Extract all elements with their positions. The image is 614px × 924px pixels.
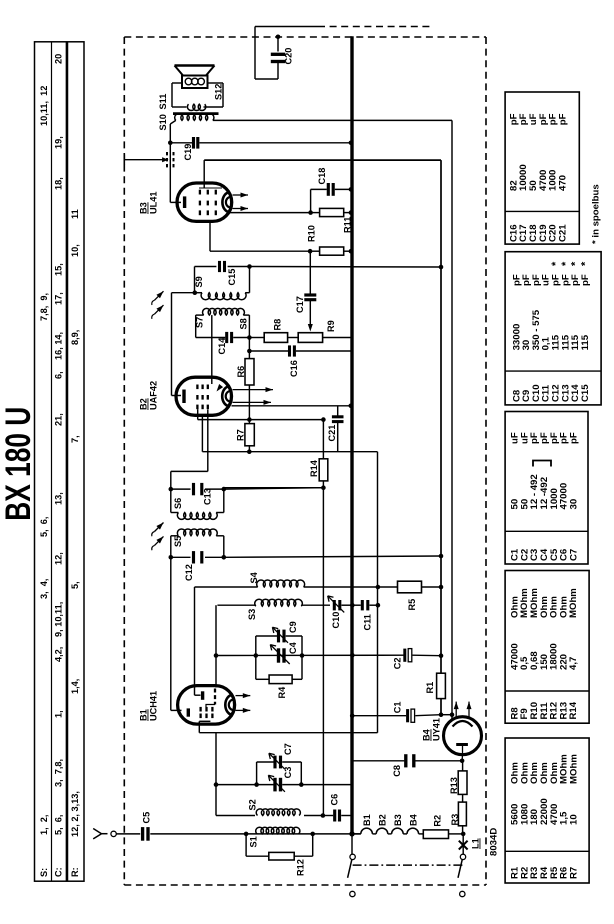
speaker	[175, 66, 215, 89]
svg-text:S2: S2	[248, 799, 258, 810]
svg-text:R13: R13	[449, 777, 459, 794]
wire C13 right to AVC	[224, 488, 324, 489]
svg-text:C3: C3	[283, 767, 293, 779]
node x452 y715	[450, 712, 455, 717]
svg-text:C8: C8	[392, 765, 402, 777]
capacitor C21	[327, 406, 344, 452]
B2 grid wire with arrow	[212, 315, 223, 391]
svg-text:S9: S9	[194, 276, 204, 287]
svg-text:S4: S4	[249, 571, 259, 583]
svg-text:* in spoelbus: * in spoelbus	[591, 184, 602, 244]
wire B2 to bus	[232, 404, 354, 409]
capacitor C5	[142, 812, 152, 841]
parts index table S C rows	[35, 42, 67, 881]
capacitor C10 trimmer	[328, 596, 352, 629]
svg-text:R7: R7	[236, 429, 246, 441]
antenna	[93, 829, 107, 839]
svg-text:B2: B2	[378, 814, 388, 826]
svg-text:C19: C19	[183, 144, 193, 161]
node box right	[300, 653, 305, 658]
wire B1 cathode	[199, 721, 255, 815]
svg-text:pF: pF	[569, 432, 580, 444]
tube B3 UL41	[177, 183, 232, 221]
resistor R3	[450, 802, 466, 834]
capacitor C17	[295, 251, 316, 331]
svg-text:470: 470	[558, 175, 569, 191]
capacitor C9 trimmer	[256, 621, 302, 655]
wire R14 bottom to left	[224, 487, 323, 489]
value table R1-R7	[505, 738, 589, 883]
svg-text:9, 10,11,: 9, 10,11,	[54, 602, 64, 637]
resistor R10	[307, 225, 354, 255]
dashed stub top right	[318, 26, 430, 28]
lamp L1	[459, 834, 481, 854]
svg-text:C13: C13	[203, 488, 213, 505]
node x441 y656	[439, 653, 444, 658]
drawing number 8034D	[489, 828, 500, 856]
svg-text:8034D: 8034D	[489, 828, 500, 856]
svg-text:B1: B1	[139, 709, 149, 721]
chassis dashed border	[124, 37, 486, 885]
svg-text:S10: S10	[158, 114, 168, 130]
node S1 left	[244, 832, 249, 837]
coil S4	[195, 571, 378, 587]
svg-text:C14: C14	[217, 337, 227, 355]
node R14 top	[321, 417, 326, 422]
node x441 y587	[439, 585, 444, 590]
svg-text:B2: B2	[139, 398, 149, 410]
label B3 UL41	[139, 192, 159, 214]
svg-text:C21: C21	[558, 224, 569, 242]
wire R6 bottom	[248, 385, 250, 420]
resistor R14	[309, 459, 328, 481]
B4 anode arrows	[454, 702, 472, 718]
svg-text:C15: C15	[580, 384, 591, 402]
svg-text:11: 11	[70, 209, 80, 219]
value table R8-R14	[505, 571, 589, 724]
svg-text:S11: S11	[158, 94, 168, 110]
resistor R6	[236, 351, 254, 385]
S row labels	[39, 86, 49, 877]
coil S7 S8	[195, 308, 250, 337]
B1 arrows	[236, 693, 251, 713]
svg-text:B1: B1	[362, 814, 372, 826]
wire S10 feed x452	[215, 120, 453, 714]
svg-text:C5: C5	[142, 812, 152, 824]
label B1 UCH41	[139, 691, 159, 721]
svg-text:C4: C4	[288, 641, 298, 654]
capacitor C14	[196, 332, 250, 355]
B3 arrows	[233, 193, 249, 212]
node box left	[254, 653, 259, 658]
svg-text:UL41: UL41	[149, 192, 159, 214]
wire B3 anode	[170, 143, 181, 203]
node riser C4	[214, 653, 219, 658]
svg-text:S8: S8	[239, 318, 249, 329]
node S8 leg C14	[247, 335, 252, 340]
node R7 bottom	[247, 449, 252, 454]
svg-text:6,: 6,	[54, 371, 64, 379]
svg-text:7,8, 9,: 7,8, 9,	[39, 293, 49, 321]
svg-text:BX 180 U: BX 180 U	[0, 407, 38, 521]
coil S9 C15 circuit	[194, 261, 250, 300]
note in spoelbus	[591, 184, 602, 244]
svg-text:C16: C16	[289, 360, 299, 377]
svg-text:C17: C17	[295, 296, 305, 313]
value table C1-C7	[505, 412, 588, 565]
resistor R13	[449, 761, 467, 802]
svg-text:B4: B4	[422, 728, 432, 741]
svg-text:R6: R6	[236, 366, 246, 378]
svg-text:10: 10	[569, 814, 580, 825]
svg-text:C12: C12	[184, 564, 194, 581]
svg-text:R7: R7	[569, 867, 580, 879]
capacitor C19	[168, 137, 352, 161]
node C10 bus	[350, 603, 355, 608]
resistor R9 potentiometer	[298, 320, 352, 342]
node x377 y605	[376, 603, 381, 608]
svg-text:5,: 5,	[70, 581, 80, 589]
C row labels	[54, 54, 64, 877]
wire B4 top	[441, 715, 452, 721]
wire B3 grid	[203, 160, 205, 188]
svg-text:B4: B4	[408, 813, 418, 826]
svg-text:L1: L1	[471, 838, 481, 849]
svg-text:R2: R2	[433, 815, 443, 827]
label B2 UAF42	[139, 381, 159, 410]
capacitor C11	[352, 600, 378, 631]
svg-text:C18: C18	[317, 168, 327, 185]
transformer core	[173, 112, 219, 115]
svg-text:4,2,: 4,2,	[54, 647, 64, 662]
coil S2	[248, 799, 323, 815]
svg-text:12,: 12,	[54, 552, 64, 565]
wire B3 cathode	[210, 223, 310, 252]
node heater bus junction	[349, 831, 354, 836]
adjust arrows S6 S5	[152, 523, 164, 551]
wire AVC x323	[322, 420, 324, 816]
coil S11	[158, 94, 206, 111]
wire bias line	[202, 417, 377, 733]
tube B4 UY41	[444, 717, 482, 761]
capacitor C20	[255, 27, 318, 80]
svg-text:S6: S6	[173, 498, 183, 509]
value table C16-C21	[505, 92, 579, 244]
coil S10	[158, 113, 215, 142]
title BX 180 U	[0, 407, 38, 521]
wire B3 screen	[230, 212, 311, 214]
node R14 bottom	[321, 485, 326, 490]
svg-text:R10: R10	[307, 225, 317, 242]
resistor R8	[264, 319, 298, 343]
parts index table R row	[68, 42, 85, 881]
tube B2 UAF42	[176, 377, 232, 415]
coil S5 C12 circuit	[169, 529, 227, 581]
switch linkage dash-dot	[353, 864, 463, 866]
svg-text:1,4,: 1,4,	[70, 679, 80, 694]
heaters B1 B2 B3 B4	[352, 813, 423, 834]
node osc bus	[350, 653, 355, 658]
wire detector line y267	[250, 266, 442, 269]
node B1 cathode osc	[214, 782, 219, 787]
svg-text:R9: R9	[326, 320, 336, 332]
svg-text:C10: C10	[331, 612, 341, 629]
wire HT line x441	[204, 160, 441, 715]
svg-text:4,7: 4,7	[568, 657, 579, 670]
capacitor C16	[247, 338, 352, 378]
svg-text:C21: C21	[327, 425, 337, 442]
svg-text:C7: C7	[283, 743, 293, 755]
svg-text:C:: C:	[54, 867, 64, 877]
svg-text:S3: S3	[247, 609, 257, 620]
wire S4 riser	[195, 587, 201, 695]
svg-text:R4: R4	[277, 686, 287, 699]
svg-text:pF: pF	[580, 274, 591, 286]
svg-text:12, 2, 3,13,: 12, 2, 3,13,	[70, 791, 80, 837]
svg-text:30: 30	[569, 499, 580, 510]
coil S6 C13 circuit	[169, 483, 227, 519]
resistor R1	[425, 673, 445, 698]
svg-text:15,: 15,	[54, 263, 64, 276]
svg-text:C7: C7	[569, 549, 580, 561]
svg-text:R12: R12	[296, 859, 306, 876]
svg-text:C1: C1	[393, 702, 403, 714]
wire B2 cathode down	[171, 410, 208, 490]
antenna terminal	[111, 831, 116, 836]
wire osc line y655	[216, 654, 405, 656]
capacitor C8	[352, 754, 462, 777]
wire S5 bottom line to x441	[224, 556, 441, 557]
svg-text:10,11, 12: 10,11, 12	[39, 86, 49, 126]
svg-text:C20: C20	[284, 48, 294, 65]
svg-text:C11: C11	[363, 614, 373, 630]
svg-text:R14: R14	[309, 459, 319, 477]
svg-text:8,9,: 8,9,	[70, 330, 80, 345]
shielded wire symbol	[124, 152, 173, 167]
svg-text:20: 20	[54, 54, 64, 64]
value table C8-C15	[505, 252, 601, 405]
label B4 UY41	[422, 718, 442, 741]
node C15 right	[247, 264, 252, 269]
wire S5 left leg down to B1 anode	[171, 557, 182, 710]
svg-text:MOhm: MOhm	[568, 588, 579, 618]
wire S9 to B2 anode	[172, 293, 195, 396]
svg-text:5, 6,: 5, 6,	[54, 815, 64, 835]
svg-text:C6: C6	[330, 794, 340, 806]
capacitor C3 trimmer	[216, 767, 301, 792]
capacitor C6	[323, 794, 352, 822]
svg-text:UY41: UY41	[432, 718, 442, 741]
svg-text:R11: R11	[343, 217, 353, 233]
svg-text:21,: 21,	[54, 413, 64, 426]
svg-text:3, 4,: 3, 4,	[39, 579, 49, 599]
svg-text:7,: 7,	[70, 435, 80, 443]
svg-text:S12: S12	[214, 84, 224, 100]
svg-text:10,: 10,	[70, 244, 80, 257]
node S1 right	[310, 832, 315, 837]
svg-text:S:: S:	[39, 868, 49, 877]
capacitor C2 electrolytic	[393, 649, 442, 670]
svg-text:C15: C15	[227, 269, 237, 286]
svg-text:17,: 17,	[54, 292, 64, 305]
node C3 right	[299, 782, 304, 787]
resistor R5	[378, 581, 441, 610]
resistor R12	[246, 834, 313, 876]
node x441 y556	[439, 554, 444, 559]
svg-text:R8: R8	[273, 319, 283, 331]
node C18 bus	[349, 187, 354, 192]
svg-text:C2: C2	[393, 658, 403, 670]
coil S3	[217, 599, 330, 620]
capacitor C18	[311, 168, 352, 213]
resistor R4	[256, 656, 302, 699]
heater and antenna line	[116, 833, 360, 835]
capacitor C7 trimmer	[257, 743, 302, 784]
svg-text:3, 7,8,: 3, 7,8,	[54, 759, 64, 787]
node R2 R3 lamp	[461, 832, 466, 837]
speaker frame S12	[172, 83, 224, 107]
switch left pole	[348, 834, 356, 897]
node S2 right	[321, 813, 326, 818]
svg-text:B3: B3	[139, 202, 149, 214]
svg-text:R3: R3	[450, 814, 460, 826]
switch right pole	[458, 854, 466, 897]
svg-text:B3: B3	[393, 814, 403, 826]
wire B2 screen R7 line	[198, 409, 324, 419]
adjust arrows S9 S7	[152, 291, 164, 319]
node x377 y587	[376, 585, 381, 590]
B2 arrows	[233, 387, 274, 405]
svg-text:R14: R14	[568, 701, 579, 719]
node C3 left	[254, 782, 259, 787]
resistor R7	[236, 417, 255, 451]
svg-text:S7: S7	[195, 317, 205, 328]
tube B1 UCH41	[178, 686, 235, 725]
node x441 y267	[439, 265, 444, 270]
svg-text:*: *	[580, 261, 592, 266]
resistor R11	[308, 208, 353, 233]
svg-text:16, 14,: 16, 14,	[54, 332, 64, 360]
svg-text:1, 2,: 1, 2,	[39, 815, 49, 835]
svg-text:5, 6,: 5, 6,	[39, 517, 49, 537]
svg-text:UCH41: UCH41	[149, 691, 159, 721]
chassis bus (thick)	[350, 36, 353, 834]
svg-text:pF: pF	[558, 113, 569, 125]
svg-text:1,: 1,	[54, 710, 64, 718]
svg-text:MOhm: MOhm	[569, 754, 580, 784]
R row labels	[70, 209, 80, 877]
wire S3 riser	[215, 605, 217, 687]
svg-text:19,: 19,	[54, 136, 64, 149]
wire to R8	[249, 337, 264, 339]
svg-text:R5: R5	[407, 599, 417, 611]
node C19 bus	[349, 141, 354, 146]
svg-text:C9: C9	[288, 621, 298, 633]
svg-text:R1: R1	[425, 682, 435, 694]
node B4 cathode	[460, 759, 465, 764]
svg-text:13,: 13,	[54, 492, 64, 505]
coil S1	[249, 827, 300, 847]
svg-text:S5: S5	[173, 536, 183, 547]
capacitor C4 variable	[270, 641, 298, 664]
svg-text:R:: R:	[70, 867, 80, 877]
capacitor C1 electrolytic	[350, 702, 441, 723]
node x441 y715	[439, 712, 444, 717]
svg-text:18,: 18,	[54, 177, 64, 190]
svg-text:115: 115	[580, 334, 591, 350]
svg-text:UAF42: UAF42	[149, 381, 159, 410]
node S9 left	[193, 290, 198, 295]
resistor R2	[423, 815, 463, 839]
svg-text:S1: S1	[249, 836, 259, 847]
wire C3 to bus	[301, 784, 352, 786]
